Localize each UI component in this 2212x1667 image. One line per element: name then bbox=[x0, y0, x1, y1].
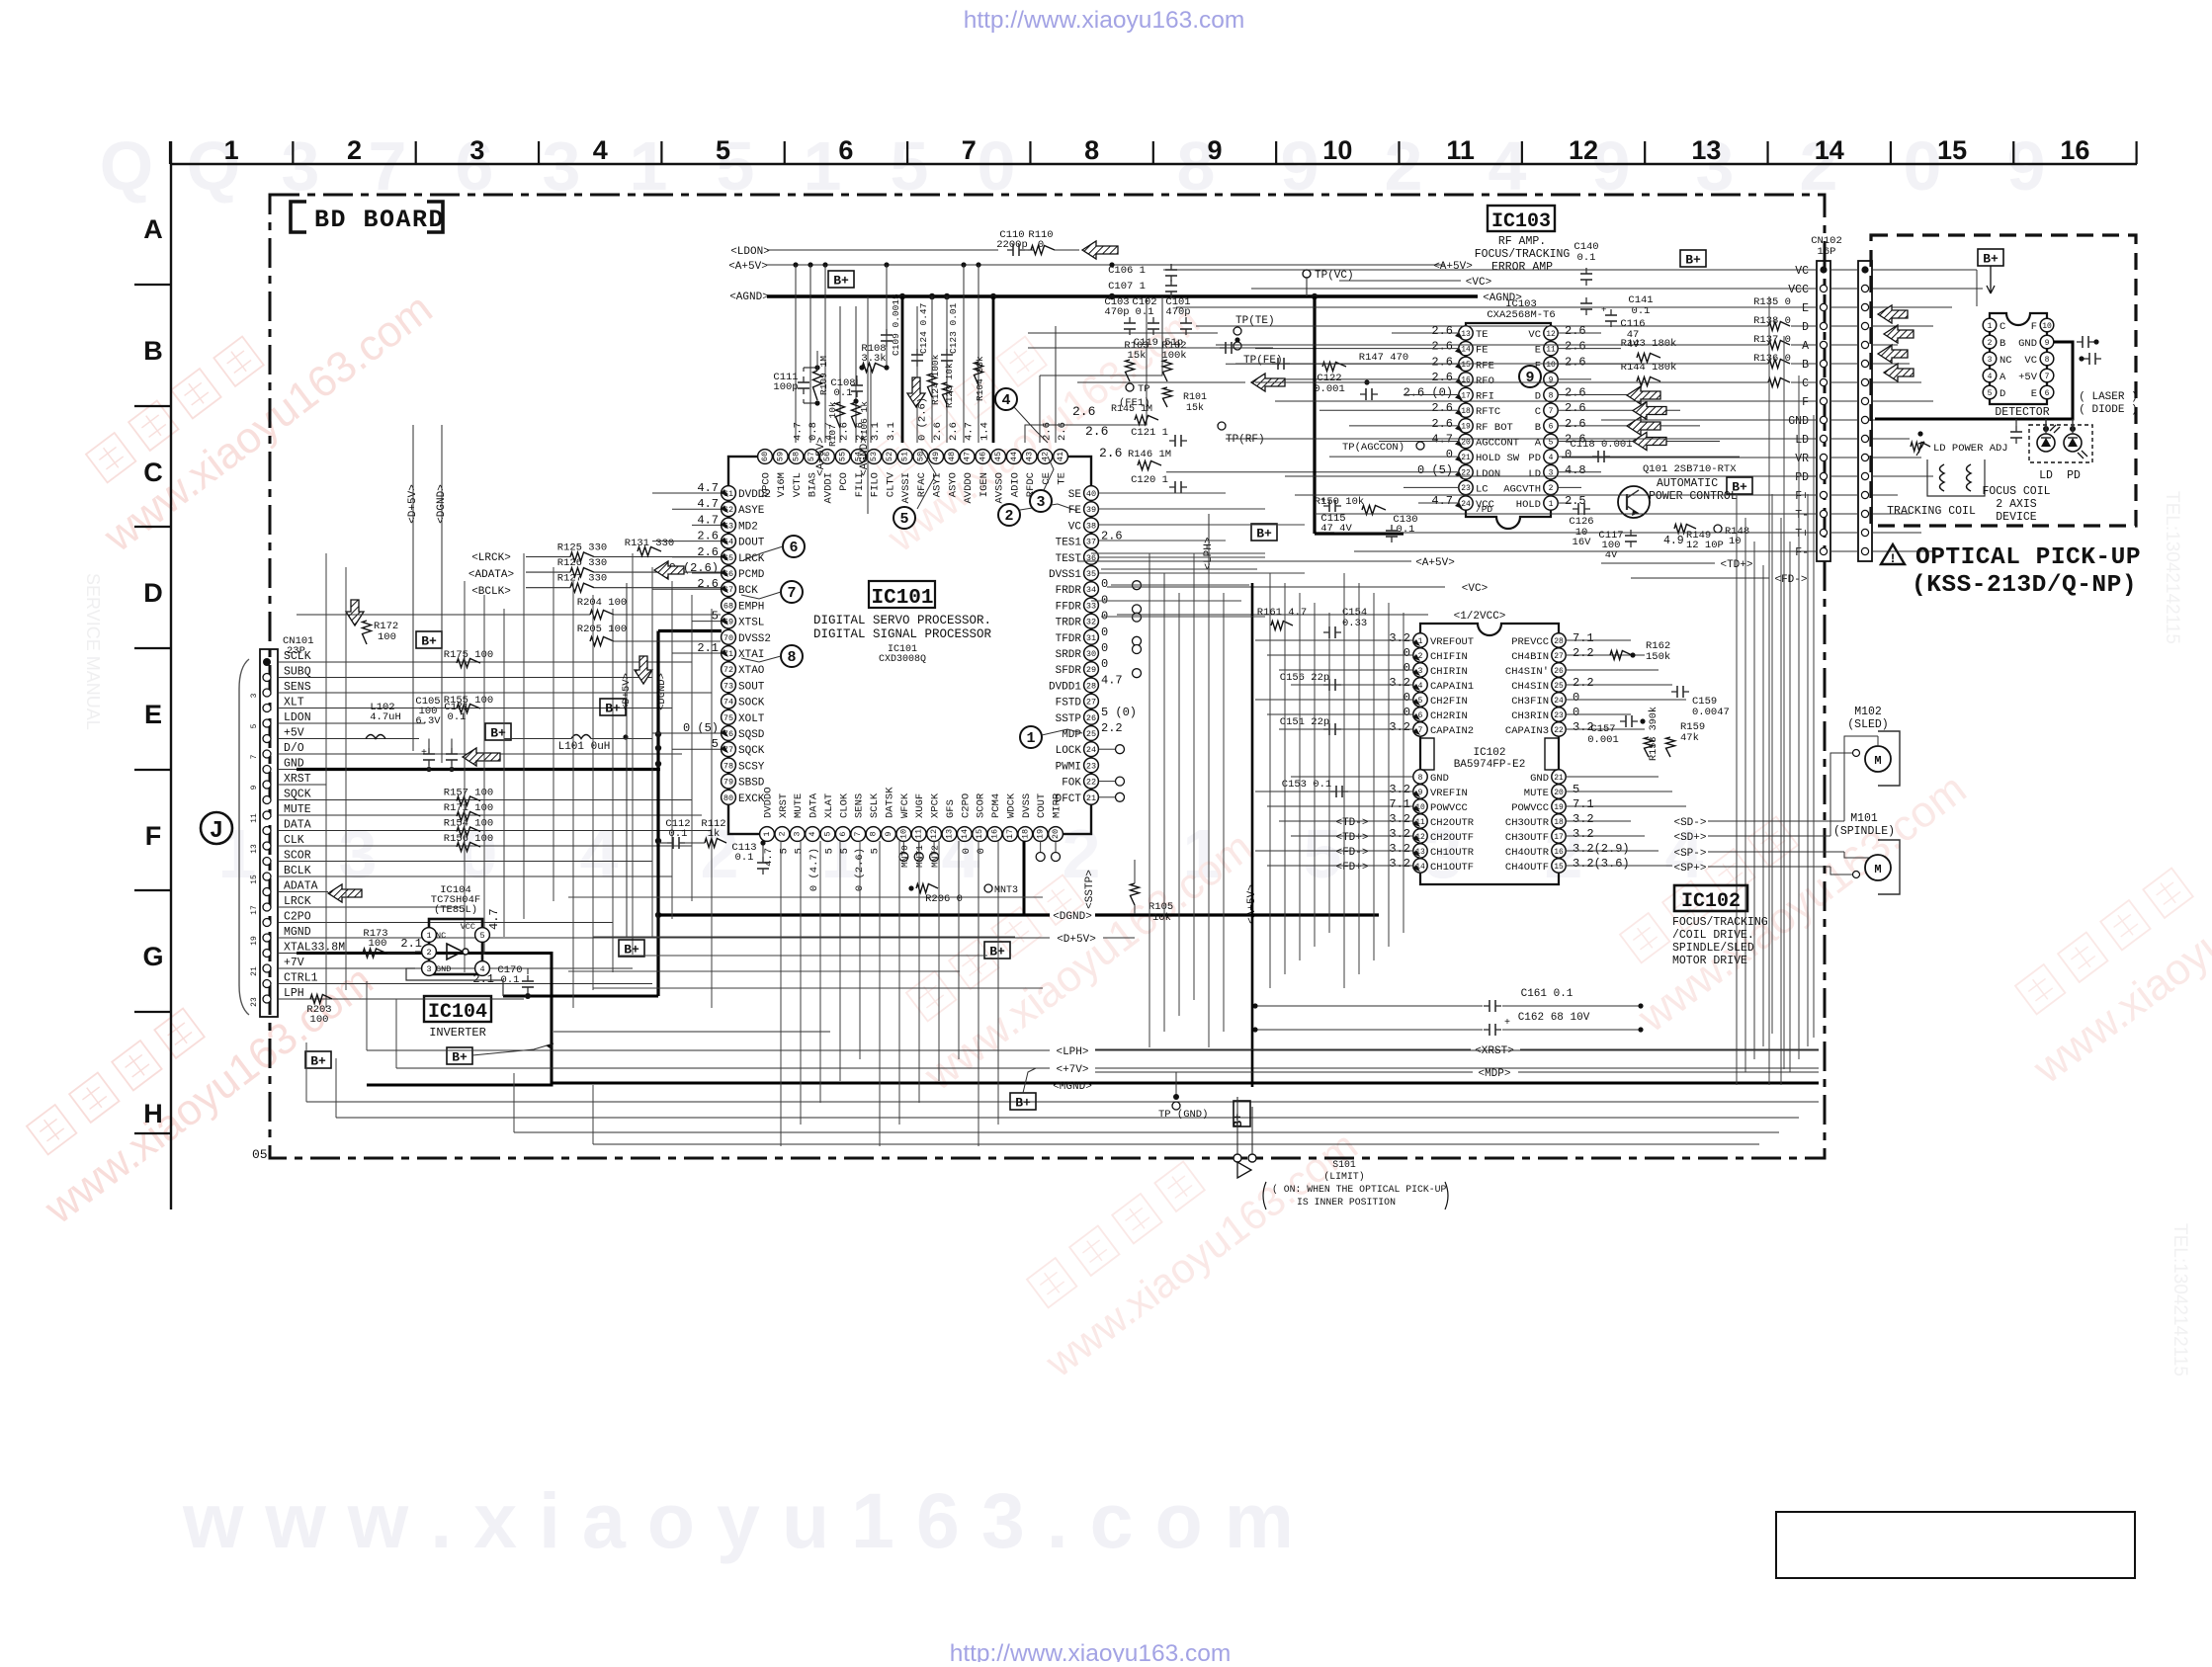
svg-text:22: 22 bbox=[1086, 778, 1096, 788]
IC102 pin 28 PREVCC bbox=[1552, 633, 1566, 647]
IC101 pin 73 SOUT bbox=[722, 678, 736, 693]
svg-text:CH2OUTF: CH2OUTF bbox=[1430, 832, 1474, 844]
svg-text:<BCLK>: <BCLK> bbox=[471, 586, 511, 598]
svg-text:11: 11 bbox=[250, 813, 259, 823]
svg-text:POWVCC: POWVCC bbox=[1430, 802, 1468, 814]
CN102 pin PD bbox=[1820, 472, 1827, 479]
svg-text:PREVCC: PREVCC bbox=[1511, 636, 1549, 648]
svg-text:28: 28 bbox=[1086, 681, 1096, 691]
svg-text:29: 29 bbox=[1086, 665, 1096, 675]
svg-text:<VC>: <VC> bbox=[1466, 277, 1491, 289]
svg-text:WFCK: WFCK bbox=[899, 792, 911, 818]
IC101 pin 67 BCK bbox=[722, 582, 736, 597]
IC102 pin 1 VREFOUT bbox=[1413, 633, 1427, 647]
svg-text:DVDD1: DVDD1 bbox=[1049, 681, 1081, 693]
CN102 pin D bbox=[1820, 322, 1827, 329]
detector pin 6 E bbox=[2040, 385, 2054, 399]
wire bundle below IC101 bbox=[568, 896, 1043, 898]
svg-text:C120 1: C120 1 bbox=[1131, 474, 1168, 486]
IC101 pin 55 PCO bbox=[835, 450, 850, 464]
wires left of IC103 area bbox=[1028, 332, 1218, 334]
svg-text:PD: PD bbox=[1795, 471, 1809, 484]
svg-text:16: 16 bbox=[1461, 376, 1471, 385]
svg-text:7: 7 bbox=[962, 135, 977, 165]
svg-text:2.5: 2.5 bbox=[1565, 494, 1586, 508]
svg-text:EMPH: EMPH bbox=[738, 601, 764, 613]
svg-text:CH2OUTR: CH2OUTR bbox=[1430, 817, 1475, 829]
svg-text:R136 0: R136 0 bbox=[1753, 353, 1791, 365]
svg-text:T-: T- bbox=[1795, 509, 1809, 522]
vertical wires from top bus to IC101 top pins bbox=[795, 265, 797, 443]
hatched arrows pickup left bbox=[1878, 305, 1908, 323]
svg-text:5: 5 bbox=[1988, 389, 1993, 398]
svg-text:LOCK: LOCK bbox=[1056, 745, 1082, 757]
svg-text:CXD3008Q: CXD3008Q bbox=[879, 654, 926, 665]
IC103 pin 1 HOLD bbox=[1544, 496, 1558, 510]
svg-text:TP(VC): TP(VC) bbox=[1315, 270, 1354, 282]
svg-text:3.2: 3.2 bbox=[1573, 812, 1594, 826]
svg-text:AVDDO: AVDDO bbox=[963, 472, 975, 504]
left bus verticals to bottom rectangles bbox=[366, 981, 368, 1050]
svg-text:R137 0: R137 0 bbox=[1753, 334, 1791, 346]
svg-text:RFE: RFE bbox=[1476, 360, 1494, 372]
IC101 pin 31 TFDR bbox=[1084, 629, 1099, 644]
IC102 pin 25 CH4SIN bbox=[1552, 678, 1566, 692]
svg-text:XLAT: XLAT bbox=[823, 793, 835, 818]
CN101 pin 14 SCOR bbox=[263, 858, 271, 866]
IC101 pin 9 DATSK bbox=[882, 827, 896, 842]
wire MGND thick path bbox=[297, 954, 552, 1086]
test point TP(FE1) bbox=[1126, 383, 1134, 391]
svg-text:0.1: 0.1 bbox=[735, 852, 754, 864]
svg-text:R175 100: R175 100 bbox=[444, 649, 493, 661]
svg-text:2.6: 2.6 bbox=[1431, 401, 1453, 415]
svg-text:470p: 470p bbox=[1104, 306, 1129, 318]
revision box bottom right bbox=[1776, 1512, 2135, 1578]
IC101 pin 65 LRCK bbox=[722, 549, 736, 564]
IC101 pin 47 AVDDO bbox=[960, 450, 975, 464]
svg-text:10: 10 bbox=[1322, 135, 1352, 165]
svg-text:R206 0: R206 0 bbox=[925, 893, 963, 905]
svg-text:2.6: 2.6 bbox=[1431, 355, 1453, 369]
svg-text:2.6: 2.6 bbox=[1085, 424, 1108, 439]
detector pin 1 C bbox=[1983, 318, 1997, 332]
svg-text:FOCUS COIL: FOCUS COIL bbox=[1982, 485, 2050, 498]
svg-text:0.1: 0.1 bbox=[448, 711, 467, 723]
svg-text:<FD->: <FD-> bbox=[1335, 847, 1368, 859]
svg-text:35: 35 bbox=[1086, 569, 1096, 579]
svg-text:24: 24 bbox=[1461, 500, 1471, 509]
svg-text:9: 9 bbox=[2007, 127, 2046, 205]
svg-text:<DGND>: <DGND> bbox=[1053, 911, 1092, 923]
svg-text:20: 20 bbox=[1554, 789, 1564, 797]
svg-text:(SLED): (SLED) bbox=[1847, 718, 1888, 731]
detector pin 5 D bbox=[1983, 385, 1997, 399]
svg-text:1k: 1k bbox=[708, 828, 721, 840]
wires right verticals to CN102 bbox=[1768, 296, 1770, 1085]
watermark pink upper-left bbox=[58, 236, 441, 562]
IC101 pin 59 V16M bbox=[773, 450, 788, 464]
IC101 pin 77 SQCK bbox=[722, 742, 736, 757]
svg-text:<A+5V>: <A+5V> bbox=[728, 261, 768, 273]
svg-text:7: 7 bbox=[787, 585, 796, 602]
svg-text:0: 0 bbox=[961, 848, 973, 854]
svg-text:LDON: LDON bbox=[1476, 468, 1500, 480]
svg-text:8: 8 bbox=[869, 831, 879, 836]
IC101 pin 54 FILI bbox=[851, 450, 866, 464]
svg-text:MNT3: MNT3 bbox=[994, 885, 1018, 896]
IC102 pin 9 VREFIN bbox=[1413, 785, 1427, 798]
svg-text:1: 1 bbox=[1026, 730, 1035, 747]
svg-text:4.7: 4.7 bbox=[1101, 673, 1123, 687]
svg-text:C123 0.01: C123 0.01 bbox=[948, 302, 959, 354]
svg-text:SENS: SENS bbox=[284, 681, 311, 694]
svg-text:0.0047: 0.0047 bbox=[1692, 707, 1730, 718]
svg-text:2: 2 bbox=[1988, 339, 1993, 348]
svg-text:DEVICE: DEVICE bbox=[1996, 511, 2037, 524]
svg-text:MUTE: MUTE bbox=[793, 793, 805, 818]
IC103 pin 17 RFI bbox=[1459, 387, 1473, 401]
IC101 pin 23 PWMI bbox=[1084, 758, 1099, 773]
svg-text:TEST: TEST bbox=[1056, 553, 1082, 565]
detector pin 2 B bbox=[1983, 335, 1997, 349]
svg-text:72: 72 bbox=[723, 665, 733, 675]
svg-text:PWMI: PWMI bbox=[1056, 761, 1081, 773]
wire loop pins 44-42 to right bbox=[1025, 296, 1147, 443]
svg-text:15k: 15k bbox=[1186, 402, 1204, 414]
IC101 pin 35 DVSS1 bbox=[1084, 566, 1099, 581]
wires IC103 right pins to right bbox=[1558, 332, 1601, 334]
svg-text:4: 4 bbox=[808, 831, 817, 836]
svg-text:B+: B+ bbox=[1015, 1096, 1031, 1111]
svg-text:J: J bbox=[210, 818, 223, 845]
IC103 pin 6 B bbox=[1544, 419, 1558, 433]
svg-text:8: 8 bbox=[787, 649, 796, 666]
svg-text:R101: R101 bbox=[1183, 392, 1207, 403]
svg-text:4.7uH: 4.7uH bbox=[370, 711, 401, 723]
svg-text:0 (2.6): 0 (2.6) bbox=[916, 397, 928, 441]
svg-text:0.001: 0.001 bbox=[1587, 734, 1619, 746]
svg-text:R155 100: R155 100 bbox=[444, 695, 493, 707]
svg-text:28: 28 bbox=[1554, 637, 1564, 646]
svg-text:CH1OUTR: CH1OUTR bbox=[1430, 847, 1475, 859]
IC102 pin 3 CHIRIN bbox=[1413, 663, 1427, 677]
svg-text:<LRCK>: <LRCK> bbox=[471, 552, 511, 564]
IC101 pin 18 DVSS bbox=[1018, 827, 1033, 842]
svg-text:BCLK: BCLK bbox=[284, 865, 311, 877]
svg-text:2.6: 2.6 bbox=[1041, 422, 1053, 441]
svg-text:+: + bbox=[421, 748, 427, 759]
svg-text:6.3V: 6.3V bbox=[415, 715, 441, 727]
wire verticals below IC101 bbox=[780, 841, 782, 1146]
IC103 pin 8 D bbox=[1544, 387, 1558, 401]
IC102 pin 22 CAPAIN3 bbox=[1552, 722, 1566, 736]
svg-text:MNT0: MNT0 bbox=[899, 845, 910, 868]
svg-text:50: 50 bbox=[915, 452, 925, 461]
inverter IC104 outline bbox=[429, 919, 482, 974]
svg-text:IC102: IC102 bbox=[1681, 890, 1741, 913]
svg-text:SBSD: SBSD bbox=[738, 778, 765, 790]
svg-text:<LDON>: <LDON> bbox=[730, 246, 770, 258]
svg-text:1: 1 bbox=[224, 135, 239, 165]
svg-text:COUT: COUT bbox=[1036, 793, 1048, 818]
svg-text:SCOR: SCOR bbox=[976, 792, 987, 818]
svg-text:IC104: IC104 bbox=[428, 1001, 487, 1024]
svg-text:C: C bbox=[143, 458, 163, 487]
CN102 pin VC bbox=[1820, 266, 1827, 273]
svg-text:47: 47 bbox=[963, 452, 973, 461]
svg-text:15: 15 bbox=[975, 829, 984, 839]
svg-text:B+: B+ bbox=[1232, 1114, 1245, 1127]
svg-text:WDCK: WDCK bbox=[1005, 792, 1017, 818]
svg-text:(SPINDLE): (SPINDLE) bbox=[1833, 825, 1895, 838]
optical pickup dashed box bbox=[1871, 235, 2136, 526]
svg-text:15: 15 bbox=[1461, 361, 1471, 370]
svg-text:<TD+>: <TD+> bbox=[1335, 832, 1368, 844]
watermark pink center bbox=[879, 775, 1261, 1101]
svg-text:B+: B+ bbox=[624, 943, 639, 958]
svg-text:GND: GND bbox=[1530, 773, 1549, 785]
svg-text:C: C bbox=[1999, 321, 2005, 333]
svg-text:24: 24 bbox=[1554, 697, 1564, 706]
svg-text:C161 0.1: C161 0.1 bbox=[1521, 988, 1574, 1000]
svg-text:31: 31 bbox=[1086, 633, 1096, 643]
svg-text:23: 23 bbox=[250, 997, 259, 1007]
IC103 pin 19 RF BOT bbox=[1459, 419, 1473, 433]
detector pin 10 F bbox=[2040, 318, 2054, 332]
svg-text:0: 0 bbox=[1101, 641, 1108, 655]
svg-text:9: 9 bbox=[2045, 339, 2050, 348]
svg-text:6: 6 bbox=[1549, 423, 1554, 432]
svg-text:IC101: IC101 bbox=[871, 587, 933, 610]
svg-text:C2PO: C2PO bbox=[960, 793, 972, 818]
svg-text:4.7: 4.7 bbox=[763, 848, 775, 867]
svg-text:7.1: 7.1 bbox=[1573, 797, 1594, 811]
IC102 pin 20 MUTE bbox=[1552, 785, 1566, 798]
IC103 pin 4 PD bbox=[1544, 450, 1558, 463]
svg-text:B: B bbox=[143, 336, 163, 366]
svg-text:5: 5 bbox=[716, 135, 730, 165]
svg-text:INVERTER: INVERTER bbox=[429, 1026, 486, 1040]
svg-text:VREFIN: VREFIN bbox=[1430, 788, 1468, 799]
svg-text:TP(AGCCON): TP(AGCCON) bbox=[1342, 442, 1404, 454]
svg-text:<SD->: <SD-> bbox=[1673, 817, 1706, 829]
svg-text:2: 2 bbox=[1004, 508, 1013, 525]
svg-text:FRDR: FRDR bbox=[1056, 585, 1082, 597]
svg-text:R156 100: R156 100 bbox=[444, 833, 493, 845]
svg-text:IC102: IC102 bbox=[1473, 747, 1505, 759]
horizontal connect wires to IC101 left pins bbox=[652, 492, 721, 494]
svg-text:B+: B+ bbox=[310, 1054, 326, 1069]
svg-text:32: 32 bbox=[1086, 618, 1096, 627]
IC101 pin 5 XLAT bbox=[820, 827, 835, 842]
svg-text:21: 21 bbox=[1086, 793, 1096, 803]
svg-text:w w w . x i a o y u 1 6 3 . c: w w w . x i a o y u 1 6 3 . c o m bbox=[182, 1476, 1294, 1564]
IC101 pin 14 C2PO bbox=[957, 827, 972, 842]
svg-text:3.2: 3.2 bbox=[1389, 812, 1410, 826]
svg-text:1: 1 bbox=[804, 127, 842, 205]
svg-text:ADATA: ADATA bbox=[284, 880, 318, 893]
svg-text:80: 80 bbox=[723, 793, 733, 803]
IC101 pin 26 SSTP bbox=[1084, 709, 1099, 724]
IC101 pin 43 RFDC bbox=[1022, 450, 1037, 464]
svg-text:19: 19 bbox=[250, 936, 259, 946]
CN102 pin F+ bbox=[1820, 491, 1827, 498]
svg-text:3.2: 3.2 bbox=[1389, 827, 1410, 841]
arrow left PCMD row bbox=[654, 561, 684, 579]
svg-text:/PD: /PD bbox=[1476, 504, 1492, 515]
power box B+ bottom left bbox=[305, 1051, 331, 1068]
svg-text:3: 3 bbox=[793, 831, 803, 836]
IC101 pin 38 VC bbox=[1084, 518, 1099, 533]
svg-text:XOLT: XOLT bbox=[738, 713, 765, 725]
svg-text:5 (0): 5 (0) bbox=[1101, 706, 1137, 719]
svg-text:5: 5 bbox=[479, 931, 484, 941]
detector pin 4 A bbox=[1983, 369, 1997, 382]
svg-text:B+: B+ bbox=[1732, 480, 1747, 495]
svg-text:AGCVTH: AGCVTH bbox=[1503, 483, 1541, 495]
svg-text:B+: B+ bbox=[989, 945, 1005, 959]
svg-text:43: 43 bbox=[1025, 452, 1035, 461]
svg-text:45: 45 bbox=[993, 452, 1003, 461]
svg-text:BD BOARD: BD BOARD bbox=[314, 206, 445, 234]
IC101 pin 53 FILO bbox=[867, 450, 882, 464]
svg-text:<FD+>: <FD+> bbox=[1335, 862, 1368, 874]
svg-text:B+: B+ bbox=[452, 1050, 468, 1065]
svg-text:52: 52 bbox=[885, 452, 894, 461]
wire CN102 to pickup rows bbox=[1872, 269, 1898, 271]
svg-text:B: B bbox=[1999, 338, 2005, 350]
svg-text:SUBQ: SUBQ bbox=[284, 666, 311, 679]
svg-text:0.1: 0.1 bbox=[669, 828, 688, 840]
svg-text:LC: LC bbox=[1476, 483, 1489, 495]
svg-text:C: C bbox=[1802, 377, 1809, 390]
svg-text:2.1: 2.1 bbox=[472, 972, 494, 986]
transistor Q101 bbox=[1618, 486, 1650, 518]
test point TP(GND) bbox=[1175, 1072, 1177, 1097]
IC103 pin 3 LD bbox=[1544, 465, 1558, 479]
svg-text:FOK: FOK bbox=[1062, 778, 1081, 790]
svg-text:XRST: XRST bbox=[778, 793, 790, 818]
svg-text:4: 4 bbox=[1489, 127, 1527, 205]
power box B+ right of Q101 bbox=[1727, 477, 1752, 494]
CN102 pin C bbox=[1820, 378, 1827, 385]
BD BOARD dashed border bbox=[270, 195, 1825, 1158]
IC101 pin 3 MUTE bbox=[790, 827, 805, 842]
power box B+ near D+5V bbox=[984, 942, 1010, 959]
svg-text:6: 6 bbox=[838, 831, 848, 836]
svg-text:CH3RIN: CH3RIN bbox=[1511, 710, 1549, 722]
svg-text:LDON: LDON bbox=[284, 711, 311, 724]
IC104 pin 5 bbox=[475, 928, 490, 943]
svg-text:18: 18 bbox=[1554, 818, 1564, 827]
IC101 pin 68 EMPH bbox=[722, 598, 736, 613]
IC103 pin 7 C bbox=[1544, 403, 1558, 417]
IC101 pin 22 FOK bbox=[1084, 774, 1099, 789]
IC104 pin 3 bbox=[422, 961, 437, 976]
svg-text:3: 3 bbox=[426, 964, 431, 974]
svg-text:16: 16 bbox=[2060, 135, 2089, 165]
svg-text:GND: GND bbox=[436, 964, 451, 974]
svg-text:2.6: 2.6 bbox=[932, 422, 944, 441]
svg-text:3: 3 bbox=[469, 135, 484, 165]
IC102 pin 18 CH3OUTR bbox=[1552, 814, 1566, 828]
svg-text:C: C bbox=[1535, 406, 1541, 418]
IC101 pin 64 DOUT bbox=[722, 534, 736, 548]
svg-text:A: A bbox=[143, 214, 163, 244]
svg-text:B+: B+ bbox=[833, 274, 849, 289]
svg-text:0: 0 bbox=[1101, 625, 1108, 639]
svg-text:RFO: RFO bbox=[1476, 375, 1494, 387]
svg-text:75: 75 bbox=[723, 713, 733, 723]
svg-text:TP(TE): TP(TE) bbox=[1235, 315, 1275, 327]
svg-text:59: 59 bbox=[776, 452, 786, 461]
IC101 title box bbox=[869, 581, 935, 608]
svg-text:CH3OUTF: CH3OUTF bbox=[1505, 832, 1549, 844]
IC101 pin 24 LOCK bbox=[1084, 742, 1099, 757]
svg-text:+: + bbox=[1504, 1018, 1510, 1029]
svg-text:/COIL DRIVE.: /COIL DRIVE. bbox=[1672, 929, 1754, 942]
CN102 pin E bbox=[1820, 303, 1827, 310]
svg-text:MGND: MGND bbox=[284, 926, 311, 939]
IC101 monitor pads MNT0-MNT2 bbox=[902, 841, 904, 852]
circle J reference bbox=[201, 812, 232, 844]
svg-text:C153 0.1: C153 0.1 bbox=[1282, 779, 1331, 791]
IC101 pin 40 SE bbox=[1084, 486, 1099, 501]
svg-text:D: D bbox=[1999, 388, 2005, 400]
svg-text:AVSSI: AVSSI bbox=[900, 472, 912, 504]
IC101 pin 39 FE bbox=[1084, 502, 1099, 517]
svg-text:49: 49 bbox=[931, 452, 941, 461]
svg-text:39: 39 bbox=[1086, 505, 1096, 515]
svg-text:<SP+>: <SP+> bbox=[1673, 863, 1706, 875]
laser diode dashed box bbox=[2029, 425, 2092, 462]
svg-text:4: 4 bbox=[1001, 392, 1010, 409]
power box B+ above IC103 right bbox=[1680, 250, 1706, 267]
IC101 pin 8 SCLK bbox=[866, 827, 881, 842]
svg-text:13: 13 bbox=[944, 829, 954, 839]
svg-text:4: 4 bbox=[1988, 373, 1993, 381]
IC101 pin 51 AVSSI bbox=[897, 450, 912, 464]
IC104 pin 2 bbox=[422, 945, 437, 959]
svg-text:TFDR: TFDR bbox=[1056, 633, 1082, 645]
circled 3 bbox=[1030, 490, 1052, 512]
svg-text:CAPAIN2: CAPAIN2 bbox=[1430, 725, 1474, 737]
svg-text:<TD->: <TD-> bbox=[1335, 817, 1368, 829]
svg-text:5: 5 bbox=[1573, 783, 1579, 796]
power box B+ left of IC101 bbox=[600, 699, 626, 715]
CN101 pin 17 LRCK bbox=[263, 903, 271, 911]
IC101 pin 50 RFAC bbox=[913, 450, 928, 464]
svg-text:ERROR AMP: ERROR AMP bbox=[1491, 261, 1553, 274]
svg-text:3.2: 3.2 bbox=[1389, 842, 1410, 856]
svg-text:AVSSO: AVSSO bbox=[994, 472, 1006, 504]
svg-text:0 (5): 0 (5) bbox=[1417, 463, 1453, 477]
IC102 pin 4 CAPAIN1 bbox=[1413, 678, 1427, 692]
svg-text:100: 100 bbox=[310, 1014, 329, 1026]
power box B+ pickup bbox=[1978, 249, 2003, 266]
switch S101 bbox=[1234, 1154, 1241, 1162]
svg-text:R126 330: R126 330 bbox=[557, 557, 607, 569]
wires IC102 to motors bbox=[1708, 820, 1844, 822]
IC102 pin 24 CH3FIN bbox=[1552, 693, 1566, 707]
svg-text:16V: 16V bbox=[1573, 537, 1592, 548]
IC103 pin 9 VEE bbox=[1544, 373, 1558, 386]
svg-text:CE: CE bbox=[1041, 472, 1053, 485]
IC102 pin 10 POWVCC bbox=[1413, 799, 1427, 813]
power box B+ mid bottom bbox=[1010, 1093, 1036, 1110]
IC101 pin 11 XUGF bbox=[911, 827, 926, 842]
